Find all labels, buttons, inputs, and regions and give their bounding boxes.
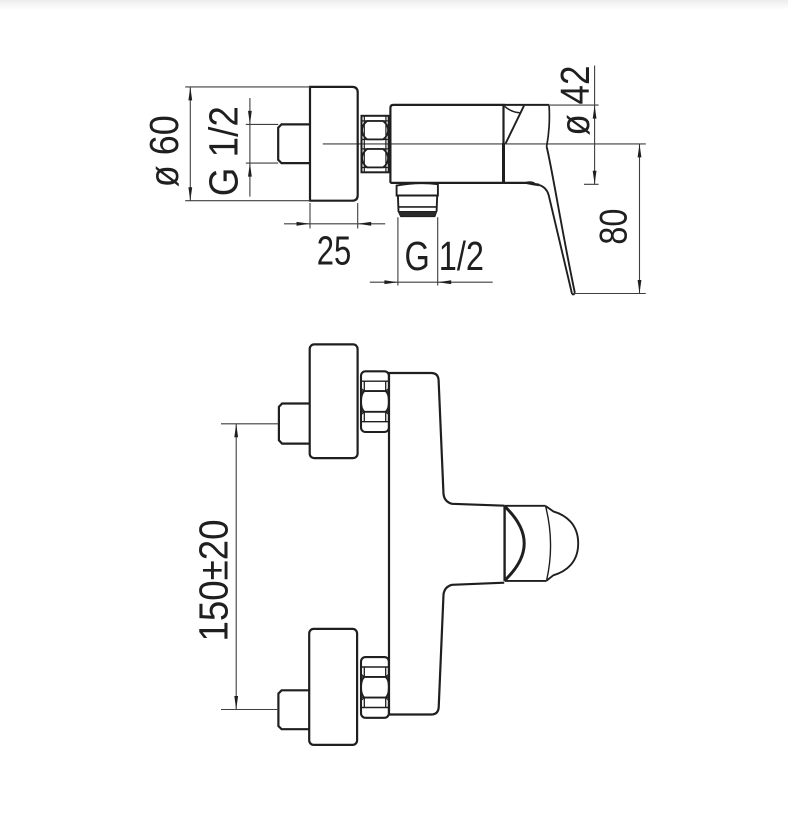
top wall flange (front)	[310, 344, 358, 458]
body (front view)	[389, 373, 504, 715]
dome	[546, 506, 579, 581]
collar with arched top	[397, 183, 438, 195]
union nut (front, bottom)	[361, 657, 389, 718]
centerline	[323, 143, 646, 145]
shower outlet (side view)	[397, 183, 438, 216]
dim ø42 line + arrows	[594, 66, 596, 185]
lower facet barrel	[362, 149, 388, 167]
dim G1/2 bottom line + arrows	[370, 281, 493, 283]
union nut (side view)	[362, 116, 389, 173]
svg-text:G 1/2: G 1/2	[405, 233, 485, 279]
dim 80 extension line bottom	[572, 293, 646, 295]
dim 150±20 line + arrows	[235, 424, 237, 710]
dim 150±20 extension lines	[221, 424, 279, 710]
svg-text:80: 80	[592, 209, 635, 245]
wall flange (side view)	[310, 87, 358, 201]
dim 80 line + arrows	[639, 144, 641, 294]
dim G1/2 bottom extension lines	[398, 217, 438, 285]
dome/blade right profile	[547, 106, 550, 147]
mid section	[398, 196, 437, 212]
inlet nipple G1/2 (side view)	[278, 124, 310, 163]
valve body (side view)	[390, 105, 503, 183]
handle cap (front view)	[505, 506, 579, 581]
body right edge heavier lower part	[502, 143, 505, 183]
svg-text:ø 60: ø 60	[141, 115, 187, 187]
svg-text:G 1/2: G 1/2	[201, 106, 247, 196]
dome top edge	[504, 104, 550, 106]
blade inner (left) edge	[539, 185, 572, 294]
lever back diagonal	[506, 106, 524, 144]
blade outer (right) edge to tip	[547, 147, 575, 293]
top inlet nipple (front)	[279, 404, 310, 444]
corner arc	[505, 106, 520, 112]
dim ø60 extension lines	[185, 87, 310, 201]
blade tip	[572, 293, 575, 295]
thin arc	[546, 506, 551, 580]
dim 25 extension lines	[310, 203, 358, 229]
lower wall flange (front)	[309, 629, 357, 745]
svg-text:150±20: 150±20	[191, 520, 237, 642]
handle dome + lever (side view)	[504, 105, 575, 294]
dome bottom thick join	[527, 183, 539, 185]
dim ø60 line	[189, 87, 191, 201]
svg-text:ø 42: ø 42	[552, 66, 598, 136]
bold arc	[505, 507, 524, 581]
svg-text:25: 25	[317, 228, 352, 274]
body bottom edge extending under handle dome	[390, 182, 527, 184]
union nut (front, top)	[361, 371, 389, 432]
dim ø42 extension lines	[549, 105, 599, 184]
dim G1/2 left extension lines	[246, 124, 278, 163]
dim G1/2 left line + arrows	[249, 98, 251, 197]
lower inlet nipple (front)	[278, 690, 309, 729]
upper facet barrel	[362, 121, 388, 139]
dark end band	[398, 212, 437, 217]
dome bottom bump	[525, 182, 535, 183]
dim 25 line + arrows	[284, 223, 385, 225]
